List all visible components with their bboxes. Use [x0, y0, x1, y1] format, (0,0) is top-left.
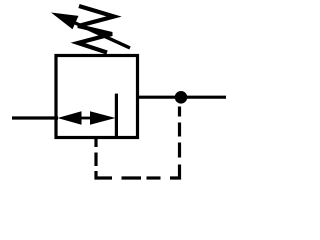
pilot line bottom dashes [122, 176, 161, 179]
wire internal vertical [115, 94, 118, 138]
wire right port [138, 96, 227, 99]
adjustment arrow [51, 13, 130, 49]
pilot line bottom-left corner [96, 171, 112, 178]
wire left port [12, 116, 58, 119]
spring [78, 6, 114, 53]
pilot line bottom-right corner [170, 165, 180, 179]
pilot line right vertical dashes [178, 107, 181, 158]
valve body box [56, 56, 138, 138]
flow-path double arrow [58, 111, 116, 125]
pilot line left vertical dashes [94, 139, 97, 166]
node junction dot [175, 91, 188, 104]
